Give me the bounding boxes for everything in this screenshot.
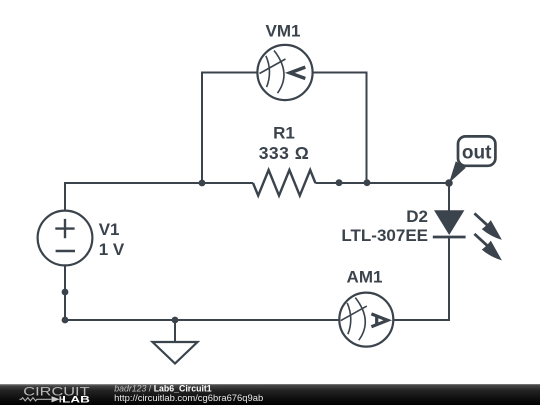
svg-text:LTL-307EE: LTL-307EE (341, 226, 428, 245)
svg-text:D2: D2 (406, 207, 428, 226)
footer logo zigzag wire (20, 398, 52, 401)
footer logo diode symbol (52, 396, 60, 402)
wire VM1 left (top horizontal + vertical down to main line) (202, 73, 258, 184)
footer bar (0, 384, 540, 405)
wire main line right segment (resistor to out node) (315, 182, 449, 184)
LED light arrow 1 shaft (474, 213, 487, 225)
wire AM1 right to bottom-right corner up to LED (393, 237, 449, 320)
V1 minus sign (56, 250, 75, 252)
svg-text:http://circuitlab.com/cg6bra67: http://circuitlab.com/cg6bra676q9ab (114, 393, 263, 403)
resistor R1 zigzag (253, 170, 315, 196)
svg-text:333 Ω: 333 Ω (259, 143, 310, 163)
out flag pointer wedge (449, 161, 466, 183)
voltmeter VM1 circle (257, 45, 312, 100)
svg-text:out: out (462, 142, 492, 163)
voltage source V1 circle (38, 211, 93, 266)
LED light arrow 2 head (482, 241, 502, 261)
LED light arrow 1 head (482, 220, 502, 240)
ground stub wire (174, 320, 176, 342)
LED D2 triangle (anode, pointing down) (434, 210, 464, 235)
AM1 meter face arcs and needle (341, 298, 367, 341)
wire VM1 right (top horizontal + vertical down to main line) (313, 73, 367, 184)
ground triangle (153, 342, 198, 364)
LED light arrow 2 shaft (474, 234, 487, 246)
svg-text:badr123 / Lab6_Circuit1: badr123 / Lab6_Circuit1 (114, 383, 212, 393)
node junction dot below V1 (mid wire) (62, 289, 69, 296)
node junction dot VM1 right / main line (364, 179, 371, 186)
wire V1 bottom to bottom-left corner (65, 265, 340, 320)
svg-text:VM1: VM1 (266, 21, 301, 40)
svg-text:1 V: 1 V (99, 240, 125, 259)
node junction dot at ground tap (172, 317, 179, 324)
footer logo diode cathode bar (59, 396, 61, 402)
AM1 rotated A glyph (371, 314, 387, 327)
ammeter AM1 circle (339, 293, 393, 347)
VM1 rotated V glyph (290, 67, 306, 78)
node junction dot at VM1 left / main line (199, 180, 206, 187)
V1 plus sign (55, 219, 74, 238)
svg-text:R1: R1 (273, 123, 295, 142)
wire main line left segment (from V1 top corner to resistor) (65, 183, 253, 211)
svg-text:AM1: AM1 (347, 267, 383, 286)
node junction dot bottom-left corner (62, 317, 69, 324)
VM1 meter face arcs and needle (260, 51, 286, 94)
svg-text:V1: V1 (99, 220, 120, 239)
footer logo wire after diode (61, 398, 65, 400)
node junction dot resistor right terminal (336, 179, 343, 186)
node out dot (445, 179, 453, 187)
wire out node down to LED top (448, 183, 450, 211)
LED D2 cathode bar (433, 236, 466, 239)
svg-text:LAB: LAB (62, 395, 90, 405)
out flag box (458, 136, 495, 165)
